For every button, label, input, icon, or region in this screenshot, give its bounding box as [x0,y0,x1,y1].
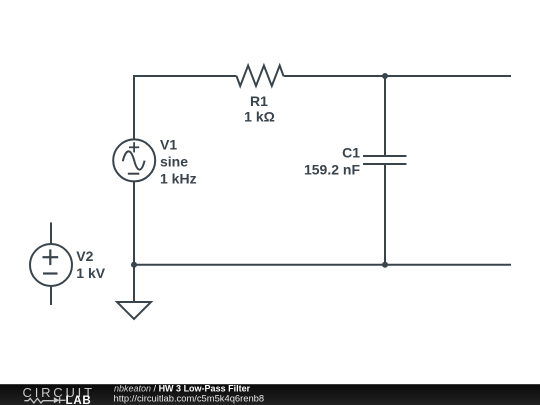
svg-text:sine: sine [160,154,188,170]
svg-text:R1: R1 [250,93,268,109]
svg-text:1 kHz: 1 kHz [160,171,197,187]
wire: bottom net horizontal [134,264,511,266]
wire: V1 minus terminal down to bottom net node [133,181,135,264]
node: junction of C1 branch with bottom net [382,262,388,268]
wire: node down to ground [133,265,135,302]
capacitor C1 [363,156,407,164]
svg-text:V1: V1 [160,137,177,153]
wire: top net, R1 right lead to right edge [284,75,512,77]
ground [117,302,151,319]
wire: V2 top stub [50,222,52,244]
wire: top net down to C1 top plate [384,76,386,156]
wire: C1 bottom plate down to bottom net [384,164,386,265]
wire: top net, V1 corner to R1 left lead [134,75,237,77]
svg-text:LAB: LAB [66,395,92,405]
voltage source V2 (DC) [30,244,72,286]
svg-text:1 kV: 1 kV [76,265,105,281]
svg-text:159.2 nF: 159.2 nF [304,161,360,177]
footer bar [0,384,540,405]
svg-text:http://circuitlab.com/c5m5k4q6: http://circuitlab.com/c5m5k4q6renb8 [114,393,265,404]
wire: vertical from top net down to V1 plus terminal [133,75,135,140]
voltage source V1 (sine) [113,139,155,181]
wire: V2 bottom stub [50,286,52,305]
svg-text:V2: V2 [76,248,93,264]
svg-text:1 kΩ: 1 kΩ [244,109,275,125]
node: junction of V1 branch with bottom net [131,262,137,268]
node: junction of C1 branch with top net [382,73,388,79]
resistor R1 [237,66,284,87]
CircuitLab logo resistor-diode glyph [24,397,65,403]
svg-text:C1: C1 [342,145,360,161]
